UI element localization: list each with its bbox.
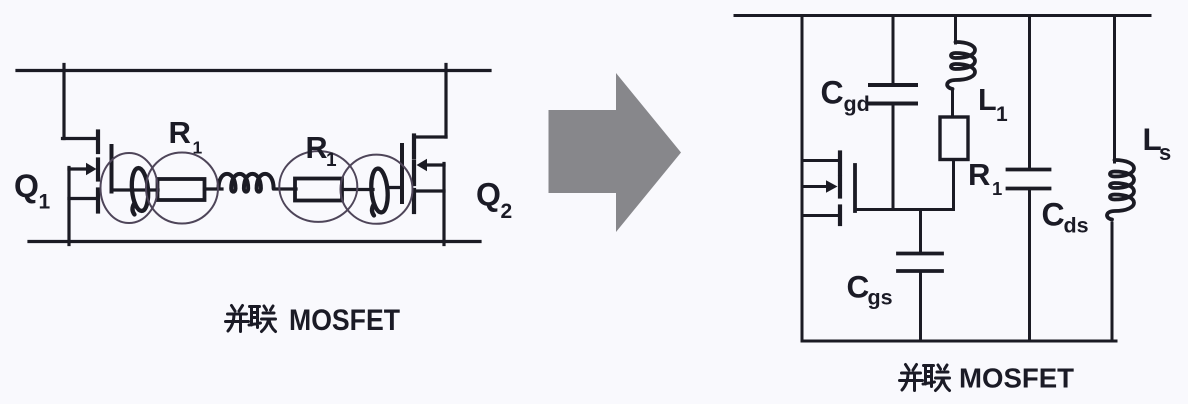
svg-text:R: R [968,157,990,192]
svg-text:gd: gd [844,92,870,116]
svg-text:R: R [169,115,191,150]
wire: right circuit top rail [735,14,1150,17]
caption right: 并联 MOSFET [900,363,1075,394]
svg-text:R: R [306,131,328,165]
label Q2 [476,177,512,224]
capacitor Cgd [870,16,916,210]
transistor M1 (right model) [802,153,855,225]
svg-text:C: C [847,269,870,305]
highlight circle 2 [146,153,218,224]
svg-text:MOSFET: MOSFET [959,363,1074,394]
wire: gate node horizontal [855,208,954,211]
svg-text:1: 1 [992,178,1002,199]
svg-text:C: C [821,75,844,111]
resistor R1a body [158,179,205,200]
label R1a [169,115,203,158]
wire: right circuit left vertical (source/drain bus) [801,16,804,342]
svg-text:s: s [1159,140,1171,165]
label R1b [306,131,338,171]
highlight circle 3 [279,151,357,222]
inductor (gate loop) [219,174,274,192]
label Ls [1143,121,1172,165]
svg-text:MOSFET: MOSFET [289,304,400,337]
svg-text:gs: gs [868,286,893,310]
parasitic loop 2 [370,168,390,216]
transistor Q1 [63,65,112,245]
svg-text:Q: Q [476,177,501,213]
label Cgs [847,269,893,310]
label Cgd [821,75,870,117]
wire: right circuit bottom rail [803,340,1116,343]
inductor L1 [947,16,975,118]
capacitor Cds [1008,16,1050,342]
wire: loop 2 to Q2 gate [388,186,402,189]
label L1 [978,83,1008,126]
wire: inductor to resistor R1b [274,187,296,190]
highlight circle 1 [101,153,158,223]
resistor R1 (right) [940,117,968,160]
label Q1 [14,168,51,214]
highlight circle 4 [341,155,413,224]
label R1 (right) [968,157,1002,199]
wire: resistor R1b to loop 2 [342,188,373,191]
svg-text:1: 1 [39,191,51,214]
svg-text:1: 1 [326,150,337,171]
wire: left circuit top rail [17,69,490,72]
wire: resistor R1a to inductor [205,187,223,190]
svg-text:1: 1 [996,103,1008,126]
svg-text:2: 2 [501,200,513,223]
svg-text:1: 1 [193,138,203,158]
svg-text:ds: ds [1064,214,1089,238]
inductor Ls [1107,16,1134,342]
parasitic loop 1 [130,167,150,214]
svg-text:L: L [978,83,997,117]
wire: R1 to gate node [952,160,955,210]
capacitor Cgs [898,210,942,342]
svg-text:C: C [1042,197,1065,233]
transistor Q2 [402,65,446,245]
wire: Q1 gate to resistor R1a [112,188,159,191]
arrow symbol [549,73,682,232]
resistor R1b body [295,179,342,201]
caption left: 并联 MOSFET [226,304,401,337]
label Cds [1042,197,1089,238]
svg-text:Q: Q [14,168,39,204]
wire: left circuit bottom rail [29,240,480,243]
